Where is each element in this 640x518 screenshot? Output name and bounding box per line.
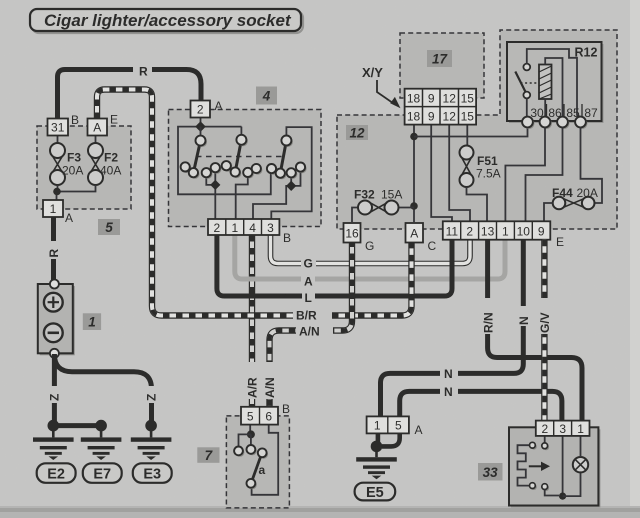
terminal oval E7 — [83, 463, 122, 483]
ground symbol E2 — [33, 420, 74, 460]
wire label gap N rotated — [517, 306, 530, 326]
component 17 shaded box — [400, 33, 484, 98]
component 7 accessory switch shaded box — [226, 416, 289, 508]
battery 1 — [38, 280, 75, 358]
wire joining F3 and F2 bottoms to connector 1 — [57, 185, 96, 201]
wire F44 to strip pin 9 — [544, 203, 553, 222]
wire R label gap rotated — [47, 241, 60, 259]
switch arm group 2 — [235, 140, 241, 172]
wire R thick from fuse 31 up and right to ignition connector 2 — [58, 70, 202, 121]
wire label gap B/R — [293, 308, 332, 323]
connector 2 (A) of ignition switch — [191, 101, 211, 118]
wire pivot risers group1 group2 — [201, 127, 242, 136]
wire B/R dashed from fuse connector A up over and down to comp12 connector A — [97, 90, 412, 316]
fuse F51 7.5A — [460, 146, 474, 188]
wire N lower from ground connector E5 pin 5 to comp33 pin 3 — [400, 391, 562, 421]
wire from node to relay terminal 30 — [414, 128, 528, 137]
wire Z label gap right — [145, 386, 158, 403]
wire pivot3 riser over to right and down to pin 3 — [271, 127, 311, 220]
junction node comp7 — [247, 430, 255, 438]
wire terminal 85 to strip pin 10 — [526, 127, 563, 222]
wire terminal 86 to strip pin 1 — [505, 127, 545, 222]
relay switch contacts — [515, 64, 537, 99]
junction node above connector A — [410, 202, 418, 210]
fixed contacts group 1 — [181, 162, 222, 179]
wire E5 pin5 curve to ground node — [382, 433, 400, 446]
wire R label gap — [133, 62, 152, 77]
wire A/R dashed from ignition pin 4 down to comp 7 pin 5 — [249, 235, 255, 407]
wire A gray from ignition pin 1 to comp12 strip pin 1 — [235, 235, 505, 279]
junction node 18 — [410, 133, 418, 141]
connector A (C) of comp12 — [406, 223, 424, 243]
comp33 wire pin2 to top contact — [544, 436, 546, 443]
wire label gap A/N horizontal — [296, 324, 333, 338]
paper noise overlay — [0, 0, 1, 1]
junction node group1 — [210, 180, 220, 190]
component 33 cigar lighter box — [509, 427, 600, 507]
connector 31 (B) — [48, 119, 69, 136]
wire Z label gap — [48, 386, 61, 403]
relay coil — [539, 65, 552, 100]
wire 15 down to fuse F51 — [466, 125, 468, 146]
wire R from fusebox connector 1 down to battery — [51, 217, 56, 282]
connector 16 (G) — [344, 223, 361, 243]
comp33 wire bottom contact to node — [545, 490, 559, 496]
wire group3 contacts to junction and pin 4 — [253, 171, 301, 221]
component 12 fuse/relay box shaded region — [337, 30, 617, 229]
wire G/V dashed from strip pin 9 to comp33 pin 2 — [541, 240, 547, 421]
badge 12 — [346, 125, 368, 141]
badge 1 — [83, 313, 101, 330]
wire junction to mid contact — [250, 434, 252, 445]
relay pin label separators — [547, 104, 583, 121]
wire F51 to strip pin 13 — [467, 187, 488, 222]
badge 17 — [427, 50, 452, 67]
relay wire coil top to terminal 85 — [545, 58, 562, 117]
wire group2 contact to pin 1 — [236, 176, 248, 220]
comp33 lamp — [573, 457, 588, 472]
relay wire switch bottom to terminal 30 — [526, 98, 528, 117]
connector table 18 9 12 15 double row — [405, 89, 477, 125]
connector 5 6 (B) of comp 7 — [241, 407, 278, 425]
junction node below F3 — [53, 188, 61, 196]
wire label gap G/V rotated — [538, 298, 552, 334]
badge 4 — [256, 87, 277, 105]
relay R12 box — [507, 42, 604, 123]
comp33 arrow — [529, 462, 550, 471]
terminal oval E3 — [133, 463, 172, 483]
wire 9 to strip pin 11 — [431, 125, 452, 222]
wire E5 pin1 to ground — [376, 433, 381, 444]
title box — [30, 9, 303, 33]
switch arm group 3 — [280, 141, 286, 174]
comp12 internal wire 18 down to connector A — [413, 125, 415, 222]
wire L black from ignition pin 2 to comp12 strip pin 11 — [217, 235, 452, 296]
connector A (E) of fusebox — [88, 119, 108, 136]
comp7 contacts — [234, 445, 268, 489]
terminal oval E5 — [355, 483, 396, 501]
component 5 fusebox shaded box — [37, 126, 131, 209]
wire label gap A/R rotated — [246, 362, 259, 399]
wire A/N dashed from comp12 connector 16 down-left-down to comp 7 pin 6 — [270, 241, 353, 408]
fixed contacts group 3 — [267, 163, 307, 180]
relay terminals — [522, 117, 587, 129]
ground symbol E7 — [81, 420, 122, 460]
wire label gap N upper horizontal — [440, 366, 458, 381]
switch arm a — [252, 457, 260, 480]
badge 5 — [98, 219, 120, 235]
arrow X/Y to table — [377, 80, 401, 108]
wire 12 to strip pin 2 — [449, 125, 470, 222]
wire common bus left loop to first contact of group 3 — [178, 127, 271, 195]
wire joining grounds E2 and E7 — [53, 423, 101, 428]
pivot contacts — [196, 135, 293, 147]
connector 2 3 1 of comp33 — [536, 421, 590, 436]
wire N from strip pin 10 to ground connector E5 pin 1 — [381, 240, 524, 417]
comp33 wire pin3 down to node — [562, 436, 564, 496]
wire G from ignition pin 3 to comp12 strip pin 2 — [271, 235, 471, 264]
component 4 ignition switch shaded box — [169, 110, 322, 227]
wire pin 5 to junction — [249, 425, 251, 435]
wire pin 6 around to bottom contact — [252, 425, 279, 495]
comp33 heater element meander — [518, 445, 530, 485]
connector strip 11 2 13 1 10 9 (E) — [443, 221, 551, 239]
comp33 wire lamp to pin 1 — [580, 436, 582, 457]
junction node group3 — [286, 181, 296, 191]
wire Z branch from battery to ground E3 — [54, 354, 151, 426]
fuse F44 20A — [553, 197, 595, 210]
fixed contacts group 2 — [222, 161, 263, 178]
wire label gap R/N rotated — [481, 298, 495, 334]
node on bus below connector 2 — [195, 121, 206, 132]
wire from connector 2 to junction — [200, 118, 202, 127]
wire junction to left contact — [239, 434, 251, 447]
relay wire switch top to terminal 87 — [527, 49, 581, 117]
fuse F32 15A — [352, 201, 414, 223]
wire group1 contacts to junction and pin 2 — [206, 171, 215, 220]
ground junction node E5 — [371, 441, 383, 453]
mechanical link dashed line — [196, 156, 282, 158]
badge 7 — [197, 447, 219, 463]
connector strip 2 1 4 3 (B) of ignition switch — [208, 219, 279, 235]
terminal oval E2 — [37, 463, 76, 483]
connector 1 (A) of fusebox — [43, 200, 63, 217]
wire label gaps G A L — [301, 256, 316, 270]
comp33 node — [559, 493, 566, 500]
connector 1 5 (A) at ground E5 — [367, 416, 409, 433]
fuse F3 20A — [50, 143, 65, 185]
wire label gap A/N rotated — [263, 362, 276, 399]
ground symbol E5 — [356, 446, 397, 479]
wire label gap N lower horizontal — [440, 384, 458, 399]
wire Z from battery to ground E2 — [52, 358, 57, 426]
comp33 wire node to lamp — [563, 473, 581, 497]
fuse F2 40A — [88, 135, 103, 185]
ground symbol E3 — [131, 420, 172, 460]
comp33 element contacts — [530, 442, 550, 491]
wire R/N from strip pin 13 to comp33 pin 1 — [488, 240, 582, 421]
wire 31 to fuse F3 — [57, 135, 59, 144]
wire terminal 87 to fuse F44 — [581, 127, 603, 203]
badge 33 — [478, 463, 503, 481]
switch arm group 1 — [193, 141, 200, 173]
relay wire coil bottom to terminal 86 — [544, 99, 546, 117]
